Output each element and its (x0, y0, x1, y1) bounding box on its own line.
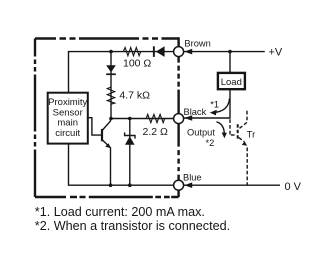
svg-text:2.2 Ω: 2.2 Ω (143, 126, 169, 138)
svg-text:Load: Load (221, 77, 242, 88)
svg-text:*1. Load current: 200 mA max.: *1. Load current: 200 mA max. (35, 205, 205, 219)
svg-text:Tr: Tr (247, 130, 255, 140)
svg-text:*1: *1 (210, 100, 219, 110)
svg-text:Blue: Blue (183, 173, 202, 183)
svg-text:circuit: circuit (55, 128, 80, 139)
svg-text:100 Ω: 100 Ω (123, 58, 151, 70)
svg-text:Black: Black (184, 107, 207, 117)
svg-text:0 V: 0 V (285, 181, 302, 193)
svg-text:*2. When a transistor is conne: *2. When a transistor is connected. (35, 219, 230, 233)
svg-text:+V: +V (269, 47, 283, 59)
svg-text:Output: Output (187, 128, 215, 138)
svg-text:*2: *2 (206, 138, 215, 148)
svg-text:4.7 kΩ: 4.7 kΩ (119, 89, 150, 101)
svg-text:Brown: Brown (184, 39, 210, 49)
